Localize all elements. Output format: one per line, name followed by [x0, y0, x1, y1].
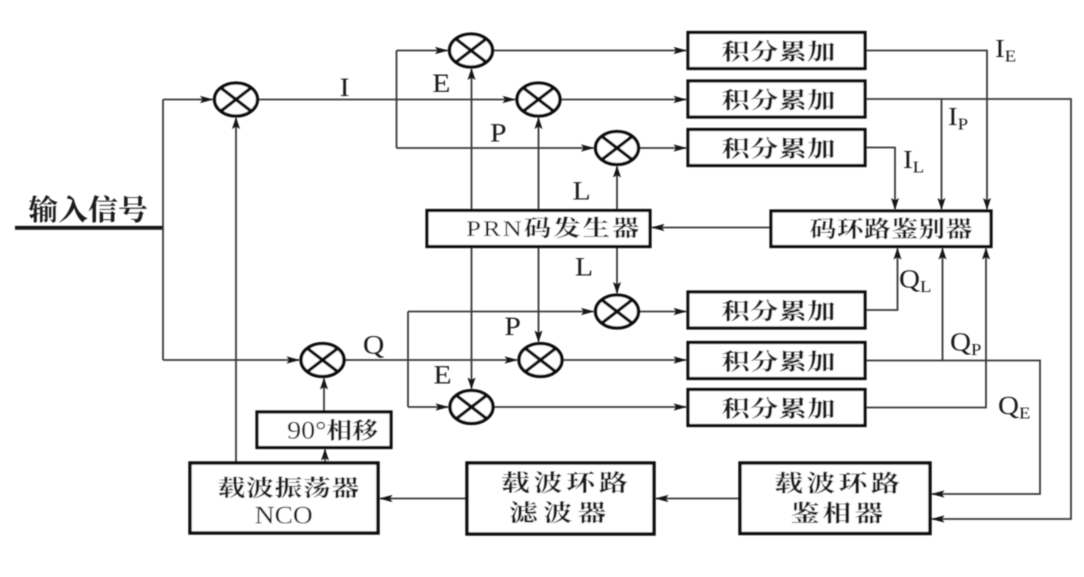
label carrier loop text 载波环路 #2 — [775, 472, 899, 494]
arrowhead into integrator — [674, 96, 688, 103]
wire Q line mixer to P mixer — [344, 359, 517, 361]
wire L mixer to integrator 4 — [639, 311, 687, 313]
label integrate-accumulate text 积分累加 #3 — [722, 137, 834, 159]
mixer E of I branch (multiplier) — [450, 34, 493, 67]
mixer P of I branch (multiplier) — [517, 83, 560, 116]
label input signal 输入信号 — [29, 195, 147, 223]
arrowhead into integrator — [674, 47, 688, 54]
block PRN code generator — [427, 211, 650, 247]
arrowhead into I mixer — [200, 96, 214, 103]
wire IE feedback — [865, 51, 987, 210]
label 90 degree phase shift text — [288, 419, 378, 441]
arrowhead into phase shifter bottom — [321, 449, 329, 461]
label E lower — [434, 366, 450, 383]
label P lower — [505, 318, 520, 335]
label integrate-accumulate text 积分累加 #5 — [722, 350, 834, 372]
arrowhead QP into code discriminator bottom — [939, 248, 947, 260]
wire QE feedback — [865, 249, 986, 408]
wire input signal thick line — [15, 226, 163, 230]
wire P code line down — [538, 247, 540, 342]
wire L mixer to integrator 3 — [639, 147, 687, 149]
wire input to Q mixer — [163, 359, 299, 361]
arrowhead IP into carrier discriminator — [931, 515, 945, 522]
block integrate-accumulate IL — [688, 130, 865, 166]
wire E code line down — [471, 247, 473, 389]
block 90 degree phase shifter — [257, 412, 391, 448]
arrowhead into E mixer of I branch — [435, 47, 449, 54]
wire I branch split vertical — [396, 51, 398, 149]
block carrier loop phase discriminator — [740, 463, 930, 534]
block integrate-accumulate IP — [688, 81, 865, 117]
arrowhead into P mixer of Q branch — [505, 356, 519, 363]
wire I line mixer1 to P mixer — [258, 99, 516, 101]
label integrate-accumulate text 积分累加 #4 — [722, 300, 834, 322]
arrowhead L into L mixer bottom — [613, 166, 621, 178]
arrowhead P into P mixer bottom — [535, 117, 543, 129]
block integrate-accumulate QL — [688, 292, 865, 328]
label IE output — [996, 40, 1015, 62]
arrowhead into integrator — [674, 308, 688, 315]
wire code discriminator to PRN generator — [652, 227, 771, 229]
arrowhead into L mixer of I branch — [581, 144, 595, 151]
label L lower — [576, 258, 592, 275]
label P upper — [491, 124, 506, 141]
arrowhead IL into code discriminator top — [891, 198, 899, 210]
label QE output — [999, 397, 1029, 419]
label carrier loop text 载波环路 — [502, 471, 627, 493]
mixer E of Q branch (multiplier) — [450, 391, 493, 424]
wire IP branch down — [941, 99, 943, 209]
wire NCO to phase shifter — [324, 450, 326, 464]
label IP output — [949, 108, 967, 130]
block integrate-accumulate QP — [688, 343, 865, 379]
label loop filter text 滤波器 — [510, 501, 606, 523]
wire E code line up — [471, 69, 473, 211]
wire phase shifter to Q mixer — [323, 379, 325, 413]
arrowhead E into E mixer bottom — [468, 68, 476, 80]
arrowhead 90deg carrier into Q mixer bottom — [320, 378, 328, 390]
arrowhead carrier into I mixer bottom — [232, 117, 240, 129]
arrowhead IP into code discriminator top — [938, 198, 946, 210]
label integrate-accumulate text 积分累加 #1 — [722, 40, 834, 62]
wire NCO to I mixer — [235, 118, 237, 463]
block integrate-accumulate QE — [688, 390, 865, 426]
mixer P of Q branch (multiplier) — [519, 344, 562, 377]
arrowhead into L mixer of Q branch — [581, 308, 595, 315]
arrowhead into integrator — [674, 356, 688, 363]
wire E mixer to integrator 6 — [493, 406, 686, 408]
arrowhead QL into code discriminator bottom — [894, 248, 902, 260]
label phase detector text 鉴相器 — [792, 502, 883, 524]
mixer I carrier (multiplier) — [215, 83, 258, 116]
arrowhead into loop filter — [655, 495, 669, 502]
block integrate-accumulate IE — [688, 33, 865, 69]
block code loop discriminator — [771, 211, 991, 247]
wire QL feedback — [865, 249, 898, 311]
arrowhead into Q mixer — [287, 356, 301, 363]
arrowhead into integrator — [674, 144, 688, 151]
label carrier oscillator text 载波振荡器 — [219, 476, 359, 498]
label integrate-accumulate text 积分累加 #2 — [722, 89, 834, 111]
block carrier loop filter — [467, 463, 654, 534]
wire Q branch split vertical — [407, 312, 409, 408]
block carrier oscillator NCO — [190, 463, 378, 533]
arrowhead into integrator — [674, 403, 688, 410]
wire P mixer to integrator 2 — [560, 99, 686, 101]
wire loop filter to NCO — [380, 498, 467, 500]
wire L row to L mixer — [397, 147, 594, 149]
wire P mixer to integrator 5 — [562, 359, 686, 361]
wire IL feedback — [865, 148, 895, 210]
wire E row to E mixer Q branch — [408, 406, 448, 408]
arrowhead L into L mixer top — [613, 282, 621, 294]
arrowhead E into E mixer top — [468, 378, 476, 390]
label L upper — [573, 182, 589, 199]
wire input branch vertical — [162, 100, 164, 361]
label QP output — [951, 333, 980, 355]
wire input to I mixer — [163, 99, 213, 101]
arrowhead into P mixer of I branch — [503, 96, 517, 103]
label integrate-accumulate text 积分累加 #6 — [722, 397, 834, 419]
mixer Q carrier (multiplier) — [301, 344, 344, 377]
label E upper — [433, 75, 449, 92]
label Q — [364, 336, 384, 358]
arrowhead QP into carrier discriminator — [931, 490, 945, 497]
label code loop discriminator text 码环路鉴别器 — [810, 217, 972, 239]
label I — [341, 79, 349, 96]
wire L code line down — [616, 247, 618, 294]
arrowhead into E mixer of Q branch — [436, 403, 450, 410]
mixer L of I branch (multiplier) — [596, 132, 639, 165]
arrowhead IE into code discriminator top — [983, 198, 991, 210]
arrowhead P into P mixer top — [535, 331, 543, 343]
wire E mixer to integrator 1 — [493, 50, 687, 52]
wire carrier discriminator to loop filter — [656, 498, 740, 500]
wire QP branch up — [942, 249, 944, 361]
label IL output — [904, 151, 923, 173]
wire P code line up — [538, 118, 540, 211]
arrowhead into NCO — [379, 495, 393, 502]
wire L row to L mixer Q branch — [408, 311, 594, 313]
label PRN code generator text — [467, 216, 639, 238]
mixer L of Q branch (multiplier) — [596, 295, 639, 328]
wire E row to E mixer — [397, 50, 448, 52]
wire QP feedback — [865, 361, 1040, 495]
arrowhead into PRN generator — [651, 224, 665, 231]
wire L code line up — [616, 167, 618, 211]
arrowhead QE into code discriminator bottom — [982, 248, 990, 260]
label NCO text — [256, 507, 312, 524]
label QL output — [900, 270, 930, 292]
wire IP feedback — [865, 99, 1071, 519]
